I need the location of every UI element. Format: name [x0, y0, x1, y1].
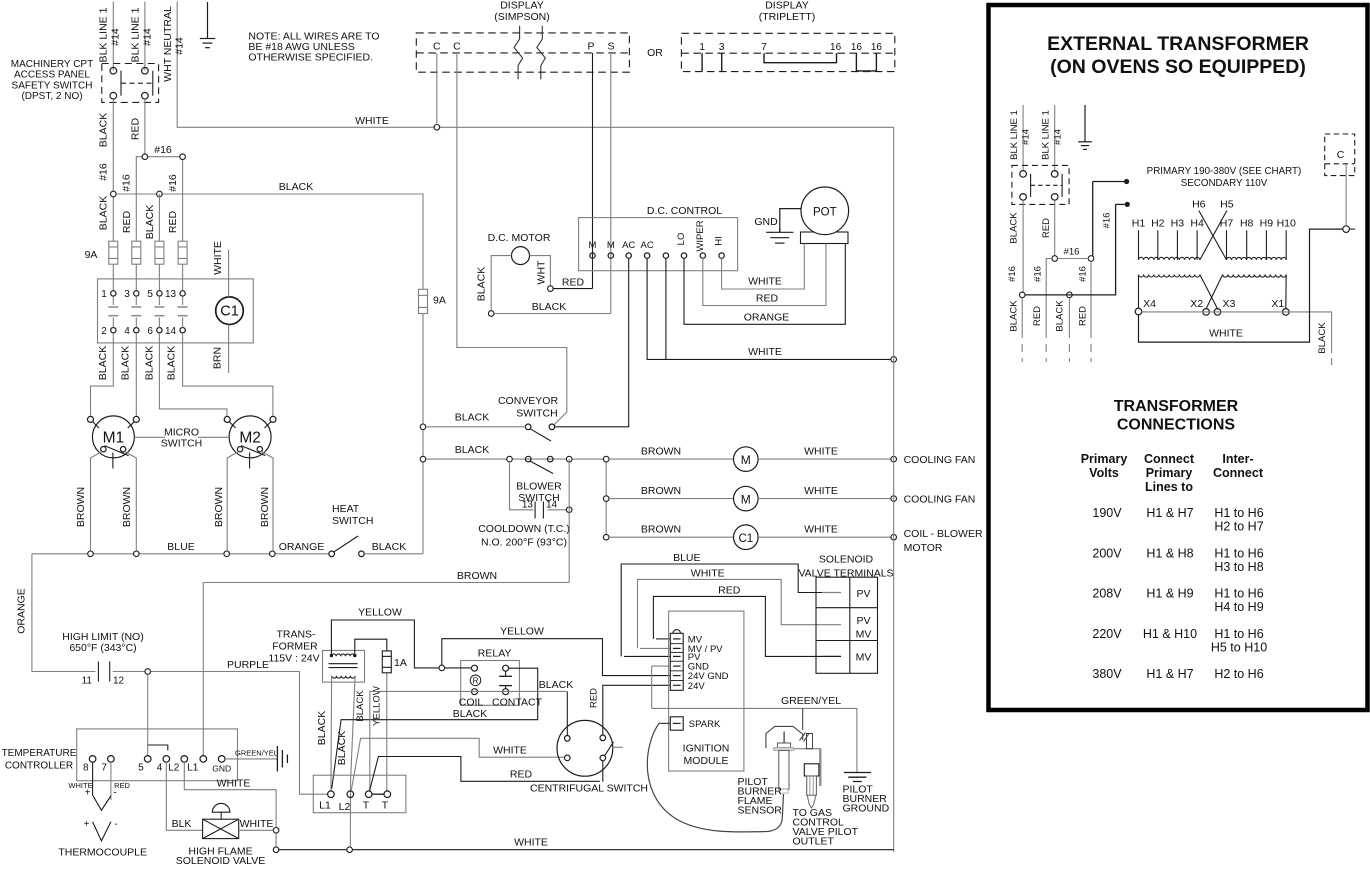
wire: YELLOW branch up to 24V GND terminal [442, 626, 671, 676]
svg-text:#14: #14 [1021, 129, 1032, 145]
svg-text:2: 2 [101, 326, 107, 337]
svg-text:1: 1 [699, 42, 705, 53]
svg-text:SAFETY SWITCH: SAFETY SWITCH [12, 81, 93, 92]
svg-text:M: M [741, 453, 751, 467]
svg-text:YELLOW: YELLOW [500, 626, 544, 638]
svg-text:GROUND: GROUND [843, 803, 890, 815]
svg-text:RED: RED [562, 277, 585, 289]
svg-text:WHITE: WHITE [240, 818, 274, 830]
svg-text:WHITE: WHITE [355, 115, 389, 127]
svg-text:BLACK: BLACK [98, 196, 110, 230]
svg-text:24V: 24V [688, 681, 706, 692]
svg-text:TRANSFORMER: TRANSFORMER [1114, 398, 1239, 415]
svg-text:CONTROLLER: CONTROLLER [5, 761, 73, 772]
svg-text:WHT NEUTRAL: WHT NEUTRAL [162, 6, 174, 82]
svg-text:R: R [473, 677, 479, 686]
svg-text:FORMER: FORMER [272, 641, 318, 653]
svg-text:BROWN: BROWN [641, 446, 681, 458]
svg-text:BLACK: BLACK [336, 731, 348, 765]
coil: C1 coil-blower motor row [609, 524, 983, 554]
svg-text:C: C [453, 41, 461, 53]
svg-text:H5: H5 [1220, 199, 1234, 211]
svg-text:L1: L1 [319, 800, 331, 812]
svg-text:(TRIPLETT): (TRIPLETT) [759, 11, 816, 23]
svg-text:200V: 200V [1092, 547, 1122, 561]
svg-text:Inter-: Inter- [1222, 452, 1253, 466]
svg-text:WHITE: WHITE [748, 346, 782, 358]
svg-text:BLACK: BLACK [532, 301, 566, 313]
wire: display C1 line down to neutral bus [436, 53, 438, 125]
svg-text:AC: AC [640, 240, 653, 251]
svg-text:BLK: BLK [172, 818, 192, 830]
transformer T1 115V:24V [268, 629, 364, 683]
wire: RED nested to solenoid MV [653, 585, 822, 657]
svg-text:16: 16 [830, 42, 842, 53]
svg-text:H2 to H6: H2 to H6 [1214, 667, 1263, 681]
wire: BLACK from 9A drop to conveyor switch [426, 412, 526, 427]
svg-text:ACCESS PANEL: ACCESS PANEL [14, 70, 90, 81]
svg-text:14: 14 [546, 500, 558, 511]
svg-text:M: M [607, 240, 615, 251]
svg-text:1: 1 [101, 289, 107, 300]
ground: POT gnd [754, 209, 801, 244]
table: transformer connections [1081, 452, 1267, 681]
svg-text:WHITE: WHITE [493, 745, 527, 757]
controller: D.C. CONTROL box [579, 205, 738, 271]
svg-text:Connect: Connect [1144, 452, 1195, 466]
svg-text:3: 3 [719, 42, 725, 53]
wire: panel #16 jumper with branches [1046, 182, 1094, 331]
transformer T2 external primary taps [1132, 199, 1296, 260]
terminal strip: ignition module MV..24V [670, 630, 728, 692]
wire: high limit to node then temperature controller 5 [113, 669, 168, 756]
svg-text:T: T [363, 800, 370, 812]
terminal block: L1 L2 T T [313, 775, 406, 813]
svg-text:SOLENOID VALVE: SOLENOID VALVE [176, 855, 265, 865]
thermostat: cooldown contact 13-14 [478, 462, 572, 549]
svg-text:TEMPERATURE: TEMPERATURE [2, 748, 77, 759]
sensor: pilot burner flame sensor assembly [738, 708, 821, 816]
svg-text:+: + [85, 788, 91, 799]
svg-text:SWITCH: SWITCH [332, 515, 373, 527]
svg-text:PV: PV [856, 588, 870, 600]
wire: PURPLE from high-limit node to terminal L1 [151, 659, 328, 794]
wire: display P line down through DC control M to red node [592, 53, 594, 289]
svg-text:SECONDARY 110V: SECONDARY 110V [1181, 178, 1268, 189]
svg-text:650°F (343°C): 650°F (343°C) [69, 642, 136, 654]
svg-text:BROWN: BROWN [457, 570, 497, 582]
svg-text:9A: 9A [433, 295, 446, 307]
wire: transformer right to 1A fuse to T terminal [355, 639, 387, 790]
svg-text:RED: RED [1032, 306, 1043, 326]
svg-text:Connect: Connect [1213, 466, 1264, 480]
svg-text:RELAY: RELAY [478, 648, 512, 660]
svg-text:RED: RED [718, 585, 741, 597]
svg-text:M: M [589, 240, 597, 251]
svg-text:H3: H3 [1171, 218, 1185, 230]
ground: mains earth symbol top [200, 2, 215, 48]
wire: right white bus down to bottom [893, 127, 895, 851]
svg-text:L2: L2 [168, 763, 180, 774]
svg-text:BLOWER: BLOWER [516, 481, 562, 493]
wire: panel probe 2 with dot [1101, 202, 1130, 229]
potentiometer POT with base [801, 187, 849, 244]
svg-text:7: 7 [101, 763, 107, 774]
svg-text:WHITE: WHITE [804, 446, 838, 458]
motor M1 with micro switch contacts [88, 416, 140, 551]
svg-text:16: 16 [871, 42, 883, 53]
svg-text:CONVEYOR: CONVEYOR [498, 395, 559, 407]
controller: temperature controller box [2, 729, 238, 781]
wire: WHITE loop from X4 to C line [1139, 226, 1356, 342]
svg-text:#16: #16 [1077, 266, 1088, 282]
svg-text:1A: 1A [394, 657, 407, 669]
svg-text:H8: H8 [1240, 218, 1254, 230]
label: primary/secondary ratings [1147, 166, 1302, 189]
wire: L2 to centrifugal bottom-left (white) [351, 738, 565, 791]
svg-text:4: 4 [124, 326, 130, 337]
switch: conveyor switch [498, 395, 559, 441]
svg-text:6: 6 [147, 326, 153, 337]
wire: 9A fused black drop x423 with nodes [420, 314, 426, 554]
svg-text:BLACK: BLACK [144, 346, 156, 380]
svg-text:PV: PV [856, 615, 870, 627]
ground: panel earth [1078, 105, 1092, 149]
svg-text:COIL: COIL [459, 697, 484, 709]
wire: WHT NEUTRAL #14 down then right as white neutral bus [162, 2, 894, 128]
DC control terminals M M AC AC - LO WIPER HI [589, 220, 725, 258]
wire: display C2 line down and over to conveyor switch [457, 53, 567, 425]
svg-text:WHITE: WHITE [212, 241, 224, 275]
svg-text:208V: 208V [1092, 587, 1122, 601]
symbol: cable break squiggles in Simpson display [514, 26, 545, 80]
svg-text:X3: X3 [1222, 298, 1235, 310]
motor: D.C. MOTOR [476, 232, 551, 311]
svg-text:BLACK: BLACK [453, 708, 487, 720]
svg-text:H2: H2 [1151, 218, 1165, 230]
svg-text:P: P [587, 41, 594, 53]
svg-text:H9: H9 [1260, 218, 1274, 230]
svg-text:BLACK: BLACK [1009, 212, 1020, 244]
svg-text:13: 13 [165, 289, 177, 300]
svg-text:PRIMARY 190-380V (SEE CHART): PRIMARY 190-380V (SEE CHART) [1147, 166, 1302, 177]
wire: BLK LINE 1 (left) from top to safety switch [98, 2, 122, 71]
wire: WHITE from AC terminals to right bus [647, 258, 896, 362]
wires: panel four tails dashed [1007, 266, 1091, 362]
svg-text:7: 7 [761, 42, 767, 53]
wire: BROWN bus to controller L1 [203, 570, 569, 755]
svg-text:BLK LINE 1: BLK LINE 1 [1009, 110, 1020, 160]
wire: ORANGE from LO to POT right pin [684, 244, 845, 325]
svg-text:CONTACT: CONTACT [492, 697, 543, 709]
svg-text:220V: 220V [1092, 627, 1122, 641]
coil C1 symbol inside contactor [211, 241, 243, 373]
svg-text:#14: #14 [110, 28, 122, 46]
relay R with coil and contact [459, 648, 543, 709]
wire: RED from WIPER to POT middle pin [703, 244, 826, 306]
svg-text:T: T [382, 800, 389, 812]
svg-text:BLACK: BLACK [1317, 322, 1328, 354]
wire: bottom white neutral bus [278, 837, 894, 853]
valve: gas pilot tube [793, 749, 859, 848]
svg-text:WHITE: WHITE [691, 568, 725, 580]
svg-text:POT: POT [813, 207, 837, 219]
svg-text:Primary: Primary [1146, 466, 1193, 480]
svg-text:H1 & H7: H1 & H7 [1146, 506, 1193, 520]
svg-text:#16: #16 [121, 174, 133, 192]
svg-text:#16: #16 [1101, 213, 1112, 229]
svg-text:BLACK: BLACK [355, 690, 366, 722]
svg-text:SWITCH: SWITCH [516, 408, 557, 420]
svg-text:WIPER: WIPER [695, 220, 706, 251]
contactor C1 box with contacts 1-2,3-4,5-6,13-14 [98, 279, 254, 343]
wire: black column 3 from bus to fuse 3 [121, 194, 179, 241]
svg-text:#16: #16 [98, 163, 110, 181]
svg-text:(DPST, 2 NO): (DPST, 2 NO) [21, 91, 82, 102]
svg-text:+: + [84, 819, 90, 830]
svg-text:DISPLAY: DISPLAY [765, 0, 809, 12]
svg-text:11: 11 [82, 676, 93, 687]
switch S1: machinery CPT access panel safety switch (DPST, 2 NO) [102, 64, 159, 103]
svg-text:Primary: Primary [1081, 452, 1128, 466]
wire: BLACK from heat switch to 9A fuse drop [364, 541, 423, 554]
svg-text:16: 16 [851, 42, 863, 53]
wire: AC1 down to conveyor switch [555, 258, 629, 427]
wire: transformer primary down to L1 and L2 [316, 677, 355, 847]
wire: relay coil bottom from T terminal (black) [355, 679, 573, 791]
wire: BLUE nested to solenoid PV [621, 552, 822, 656]
svg-text:HI: HI [714, 236, 725, 246]
module: ignition module box [669, 611, 744, 771]
connector: panel display C [1325, 134, 1355, 226]
wire: GND to GREEN/YEL pilot burner ground [652, 666, 857, 772]
svg-text:GND: GND [754, 216, 778, 228]
svg-text:S: S [607, 41, 614, 53]
wire: BLACK #16 from switch to fuse 1 [98, 99, 114, 241]
note text [248, 31, 379, 64]
wires: contactor outputs to motors M1 M2 [91, 333, 273, 417]
svg-text:X4: X4 [1143, 298, 1156, 310]
wire: panel black bus y295 [1019, 204, 1115, 330]
motor: cooling fan 2 [609, 485, 975, 511]
svg-text:BLACK: BLACK [455, 412, 489, 424]
svg-text:OUTLET: OUTLET [793, 836, 835, 848]
svg-text:BLACK: BLACK [97, 346, 109, 380]
svg-text:D.C. CONTROL: D.C. CONTROL [647, 205, 722, 217]
svg-text:#16: #16 [154, 144, 172, 156]
wire: GREEN/YEL controller gnd [225, 746, 287, 772]
wire: BLACK from motor to S line [488, 301, 610, 316]
svg-text:BLACK: BLACK [372, 541, 406, 553]
svg-text:BROWN: BROWN [641, 524, 681, 536]
svg-text:WHITE: WHITE [1209, 328, 1243, 340]
wire: panel BLK LINE 1 right [1041, 105, 1064, 171]
wire: BLK from controller 4 to solenoid valve [166, 762, 202, 830]
svg-text:TRANS-: TRANS- [276, 629, 316, 641]
label: micro switch between M1 and M2 [135, 427, 230, 450]
svg-text:3: 3 [124, 289, 130, 300]
wire: panel RED from switch to jumper [1041, 200, 1055, 258]
svg-text:THERMOCOUPLE: THERMOCOUPLE [58, 847, 147, 859]
svg-text:C: C [433, 41, 441, 53]
fuse F2 [132, 241, 141, 264]
svg-text:BLACK: BLACK [455, 444, 489, 456]
wire: WHITE from HI to POT left pin [722, 244, 805, 290]
svg-text:IGNITION: IGNITION [683, 743, 730, 755]
svg-text:BROWN: BROWN [213, 487, 225, 527]
svg-text:BLACK: BLACK [144, 205, 156, 239]
panel: external transformer border [989, 5, 1368, 710]
wire: panel probe 1 with dot [1093, 179, 1130, 184]
svg-text:H6: H6 [1192, 199, 1206, 211]
svg-text:AC: AC [622, 240, 635, 251]
svg-text:H4 to H9: H4 to H9 [1214, 600, 1263, 614]
wire: relay contact top to terminal L1 (black) [332, 668, 538, 789]
wire: BLK LINE 1 (right) from top to safety switch [129, 2, 153, 71]
svg-text:SWITCH: SWITCH [161, 438, 202, 450]
svg-text:SPARK: SPARK [689, 719, 721, 730]
svg-text:ORANGE: ORANGE [16, 588, 28, 634]
svg-text:MODULE: MODULE [684, 755, 729, 767]
svg-text:DISPLAY: DISPLAY [500, 0, 544, 12]
svg-text:WHITE: WHITE [217, 778, 251, 790]
svg-text:MV: MV [856, 652, 872, 664]
wire: display S line down through DC control M to black motor wire [610, 53, 612, 314]
fuse F1 9A [109, 241, 118, 264]
thermocouple with +/- junctions [58, 762, 147, 858]
svg-text:BROWN: BROWN [641, 485, 681, 497]
wire: spark cable arc to flame sensor [647, 723, 783, 832]
svg-text:380V: 380V [1092, 667, 1122, 681]
svg-text:PURPLE: PURPLE [227, 659, 269, 671]
svg-text:OTHERWISE SPECIFIED.: OTHERWISE SPECIFIED. [248, 52, 373, 64]
svg-text:M1: M1 [103, 430, 125, 447]
svg-text:H1 & H9: H1 & H9 [1146, 587, 1193, 601]
fuse F3 [155, 241, 164, 264]
wire: RED from switch to #16 junction [129, 99, 145, 157]
svg-text:#14: #14 [141, 28, 153, 46]
svg-text:WHITE: WHITE [748, 276, 782, 288]
fuse F5 9A (dc control feed) [419, 289, 428, 313]
wire: BLACK bus y194 from fuse1 wire to 9A fuse drop [111, 181, 424, 289]
switch: heat switch [329, 503, 374, 557]
wire: #16 jumper to red branches [121, 144, 186, 241]
svg-text:BLUE: BLUE [673, 552, 700, 564]
svg-text:RED: RED [129, 117, 141, 140]
svg-text:BROWN: BROWN [259, 487, 271, 527]
svg-text:RED: RED [510, 769, 533, 781]
title: external transformer [1047, 33, 1309, 78]
wire: BLACK blower line y458.8 [426, 444, 606, 462]
svg-text:#14: #14 [1052, 129, 1063, 145]
svg-text:13: 13 [522, 500, 534, 511]
svg-text:RED: RED [121, 210, 133, 233]
wire: black down to centrifugal top-left [566, 691, 568, 735]
wire: panel BLACK from switch to bus [1009, 200, 1024, 295]
svg-text:ORANGE: ORANGE [744, 312, 790, 324]
wire: WHITE from valve to node [239, 818, 274, 830]
svg-text:H1 to H6: H1 to H6 [1214, 506, 1263, 520]
motor: cooling fan 1 [609, 446, 975, 472]
fuse F4 [178, 241, 187, 264]
svg-text:WHITE: WHITE [514, 837, 548, 849]
svg-text:BLACK: BLACK [166, 346, 178, 380]
svg-text:BLACK: BLACK [316, 711, 328, 745]
svg-text:N.O. 200°F (93°C): N.O. 200°F (93°C) [481, 537, 567, 549]
svg-text:SOLENOID: SOLENOID [819, 554, 874, 566]
svg-text:H1 & H8: H1 & H8 [1146, 547, 1193, 561]
svg-text:CONNECTIONS: CONNECTIONS [1117, 417, 1236, 434]
ground: pilot burner ground [843, 773, 890, 815]
svg-text:X1: X1 [1271, 298, 1284, 310]
svg-text:BLK LINE 1: BLK LINE 1 [1041, 110, 1052, 160]
wire: WHITE from controller L2 down to bottom bus [184, 762, 279, 852]
svg-text:#16: #16 [1007, 266, 1018, 282]
wire: relay node from yellow [439, 665, 472, 671]
svg-text:RED: RED [1077, 306, 1088, 326]
svg-text:COOLING FAN: COOLING FAN [904, 454, 976, 466]
svg-text:H5 to H10: H5 to H10 [1211, 641, 1267, 655]
wire: fuse outputs into contactor [113, 264, 182, 290]
wire: fan feeder x606 with nodes [603, 456, 609, 540]
valve: high flame solenoid valve [176, 803, 265, 867]
svg-text:BLACK: BLACK [120, 346, 132, 380]
svg-text:WHT: WHT [535, 260, 547, 284]
terminal block: solenoid valve terminals [798, 554, 893, 674]
svg-text:Volts: Volts [1089, 466, 1119, 480]
svg-text:SENSOR: SENSOR [738, 805, 783, 817]
motor M2 with micro switch contacts [224, 416, 276, 551]
svg-text:BLUE: BLUE [167, 541, 194, 553]
svg-text:RED: RED [589, 688, 600, 708]
connector: display (Simpson) [416, 0, 630, 72]
svg-text:BLACK: BLACK [539, 679, 573, 691]
svg-text:RED: RED [1041, 218, 1052, 238]
svg-text:M2: M2 [239, 430, 261, 447]
svg-text:H1 to H6: H1 to H6 [1214, 587, 1263, 601]
svg-text:RED: RED [167, 210, 179, 233]
thermostat: high limit (NO) contact 11-12 [62, 631, 143, 687]
svg-text:115V : 24V: 115V : 24V [268, 653, 319, 665]
svg-text:#16: #16 [167, 174, 179, 192]
svg-text:BLACK: BLACK [98, 113, 110, 147]
svg-text:H1 & H10: H1 & H10 [1143, 627, 1197, 641]
label: machinery switch name [11, 59, 93, 102]
svg-text:COOLING FAN: COOLING FAN [904, 494, 976, 506]
svg-text:RED: RED [756, 293, 779, 305]
svg-text:L2: L2 [339, 801, 351, 813]
svg-text:C1: C1 [738, 533, 753, 545]
wire: WHITE nested to solenoid PV MV [638, 568, 823, 649]
svg-text:5: 5 [147, 289, 153, 300]
switch: panel safety switch DPST [1012, 165, 1069, 204]
svg-text:BLACK: BLACK [1055, 300, 1066, 332]
svg-text:-: - [114, 819, 117, 830]
svg-text:GREEN/YEL: GREEN/YEL [781, 695, 841, 707]
svg-text:BLACK: BLACK [279, 181, 313, 193]
switch: blower switch [516, 456, 562, 504]
svg-text:M: M [741, 492, 751, 506]
svg-text:D.C. MOTOR: D.C. MOTOR [488, 232, 551, 244]
wire: blue/orange motor return bus y553.8 with nodes [32, 487, 329, 557]
svg-text:MOTOR: MOTOR [904, 542, 943, 554]
svg-text:8: 8 [83, 763, 89, 774]
svg-text:MV: MV [856, 629, 872, 641]
svg-text:H1 to H6: H1 to H6 [1214, 627, 1263, 641]
svg-text:BRN: BRN [211, 347, 223, 369]
svg-text:GREEN/YEL: GREEN/YEL [235, 749, 278, 758]
svg-text:190V: 190V [1092, 506, 1122, 520]
